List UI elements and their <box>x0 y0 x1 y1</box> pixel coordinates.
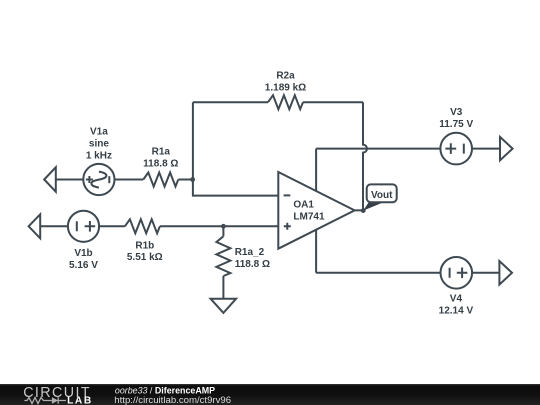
svg-text:OA1: OA1 <box>293 199 314 210</box>
svg-text:R1a: R1a <box>152 146 171 157</box>
svg-text:R1a_2: R1a_2 <box>235 247 265 258</box>
svg-text:1 kHz: 1 kHz <box>86 150 112 161</box>
svg-text:V1a: V1a <box>90 126 108 137</box>
svg-text:5.16 V: 5.16 V <box>69 260 98 271</box>
svg-text:118.8 Ω: 118.8 Ω <box>143 158 178 169</box>
svg-text:LM741: LM741 <box>293 211 325 222</box>
svg-text:V4: V4 <box>450 294 463 305</box>
svg-text:118.8 Ω: 118.8 Ω <box>235 259 270 270</box>
svg-text:V3: V3 <box>450 107 463 118</box>
svg-text:V1b: V1b <box>74 248 92 259</box>
svg-text:1.189 kΩ: 1.189 kΩ <box>265 82 306 93</box>
svg-text:11.75 V: 11.75 V <box>439 119 473 130</box>
svg-text:LAB: LAB <box>67 396 93 405</box>
svg-text:sine: sine <box>89 138 109 149</box>
svg-text:12.14 V: 12.14 V <box>439 306 474 317</box>
svg-text:http://circuitlab.com/ct9rv96: http://circuitlab.com/ct9rv96 <box>114 395 231 405</box>
svg-text:Vout: Vout <box>371 190 393 201</box>
svg-text:5.51 kΩ: 5.51 kΩ <box>127 252 163 263</box>
svg-text:R2a: R2a <box>276 70 295 81</box>
svg-text:R1b: R1b <box>135 240 154 251</box>
